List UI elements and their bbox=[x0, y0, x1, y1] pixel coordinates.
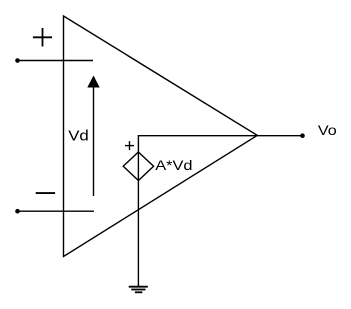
ground symbol bbox=[129, 287, 148, 293]
arrow: Vd differential voltage indicator (shaft) bbox=[93, 87, 95, 197]
- polarity mark (inverting input) bbox=[36, 192, 55, 194]
dependent voltage source E1 (diamond A*Vd) bbox=[123, 152, 153, 181]
svg-text:A*Vd: A*Vd bbox=[155, 158, 192, 174]
arrow: Vd indicator head bbox=[87, 76, 99, 88]
node: inverting input terminal dot bbox=[15, 209, 20, 214]
wire: non-inverting input lead bbox=[18, 60, 94, 62]
wire: vertical through dependent source down to ground bbox=[137, 152, 139, 287]
+ polarity mark (non-inverting input) bbox=[33, 28, 52, 47]
wire: output lead bbox=[257, 135, 302, 137]
op-amp U1 body triangle bbox=[64, 16, 258, 257]
node: non-inverting input terminal dot bbox=[15, 58, 20, 63]
wire: dependent source top to op-amp output vertex bbox=[138, 136, 257, 152]
+ polarity mark of dependent source bbox=[125, 141, 134, 150]
node Vo: output terminal dot bbox=[300, 133, 305, 138]
svg-text:Vd: Vd bbox=[68, 128, 89, 144]
svg-text:Vo: Vo bbox=[318, 123, 337, 139]
wire: inverting input lead bbox=[18, 210, 95, 212]
